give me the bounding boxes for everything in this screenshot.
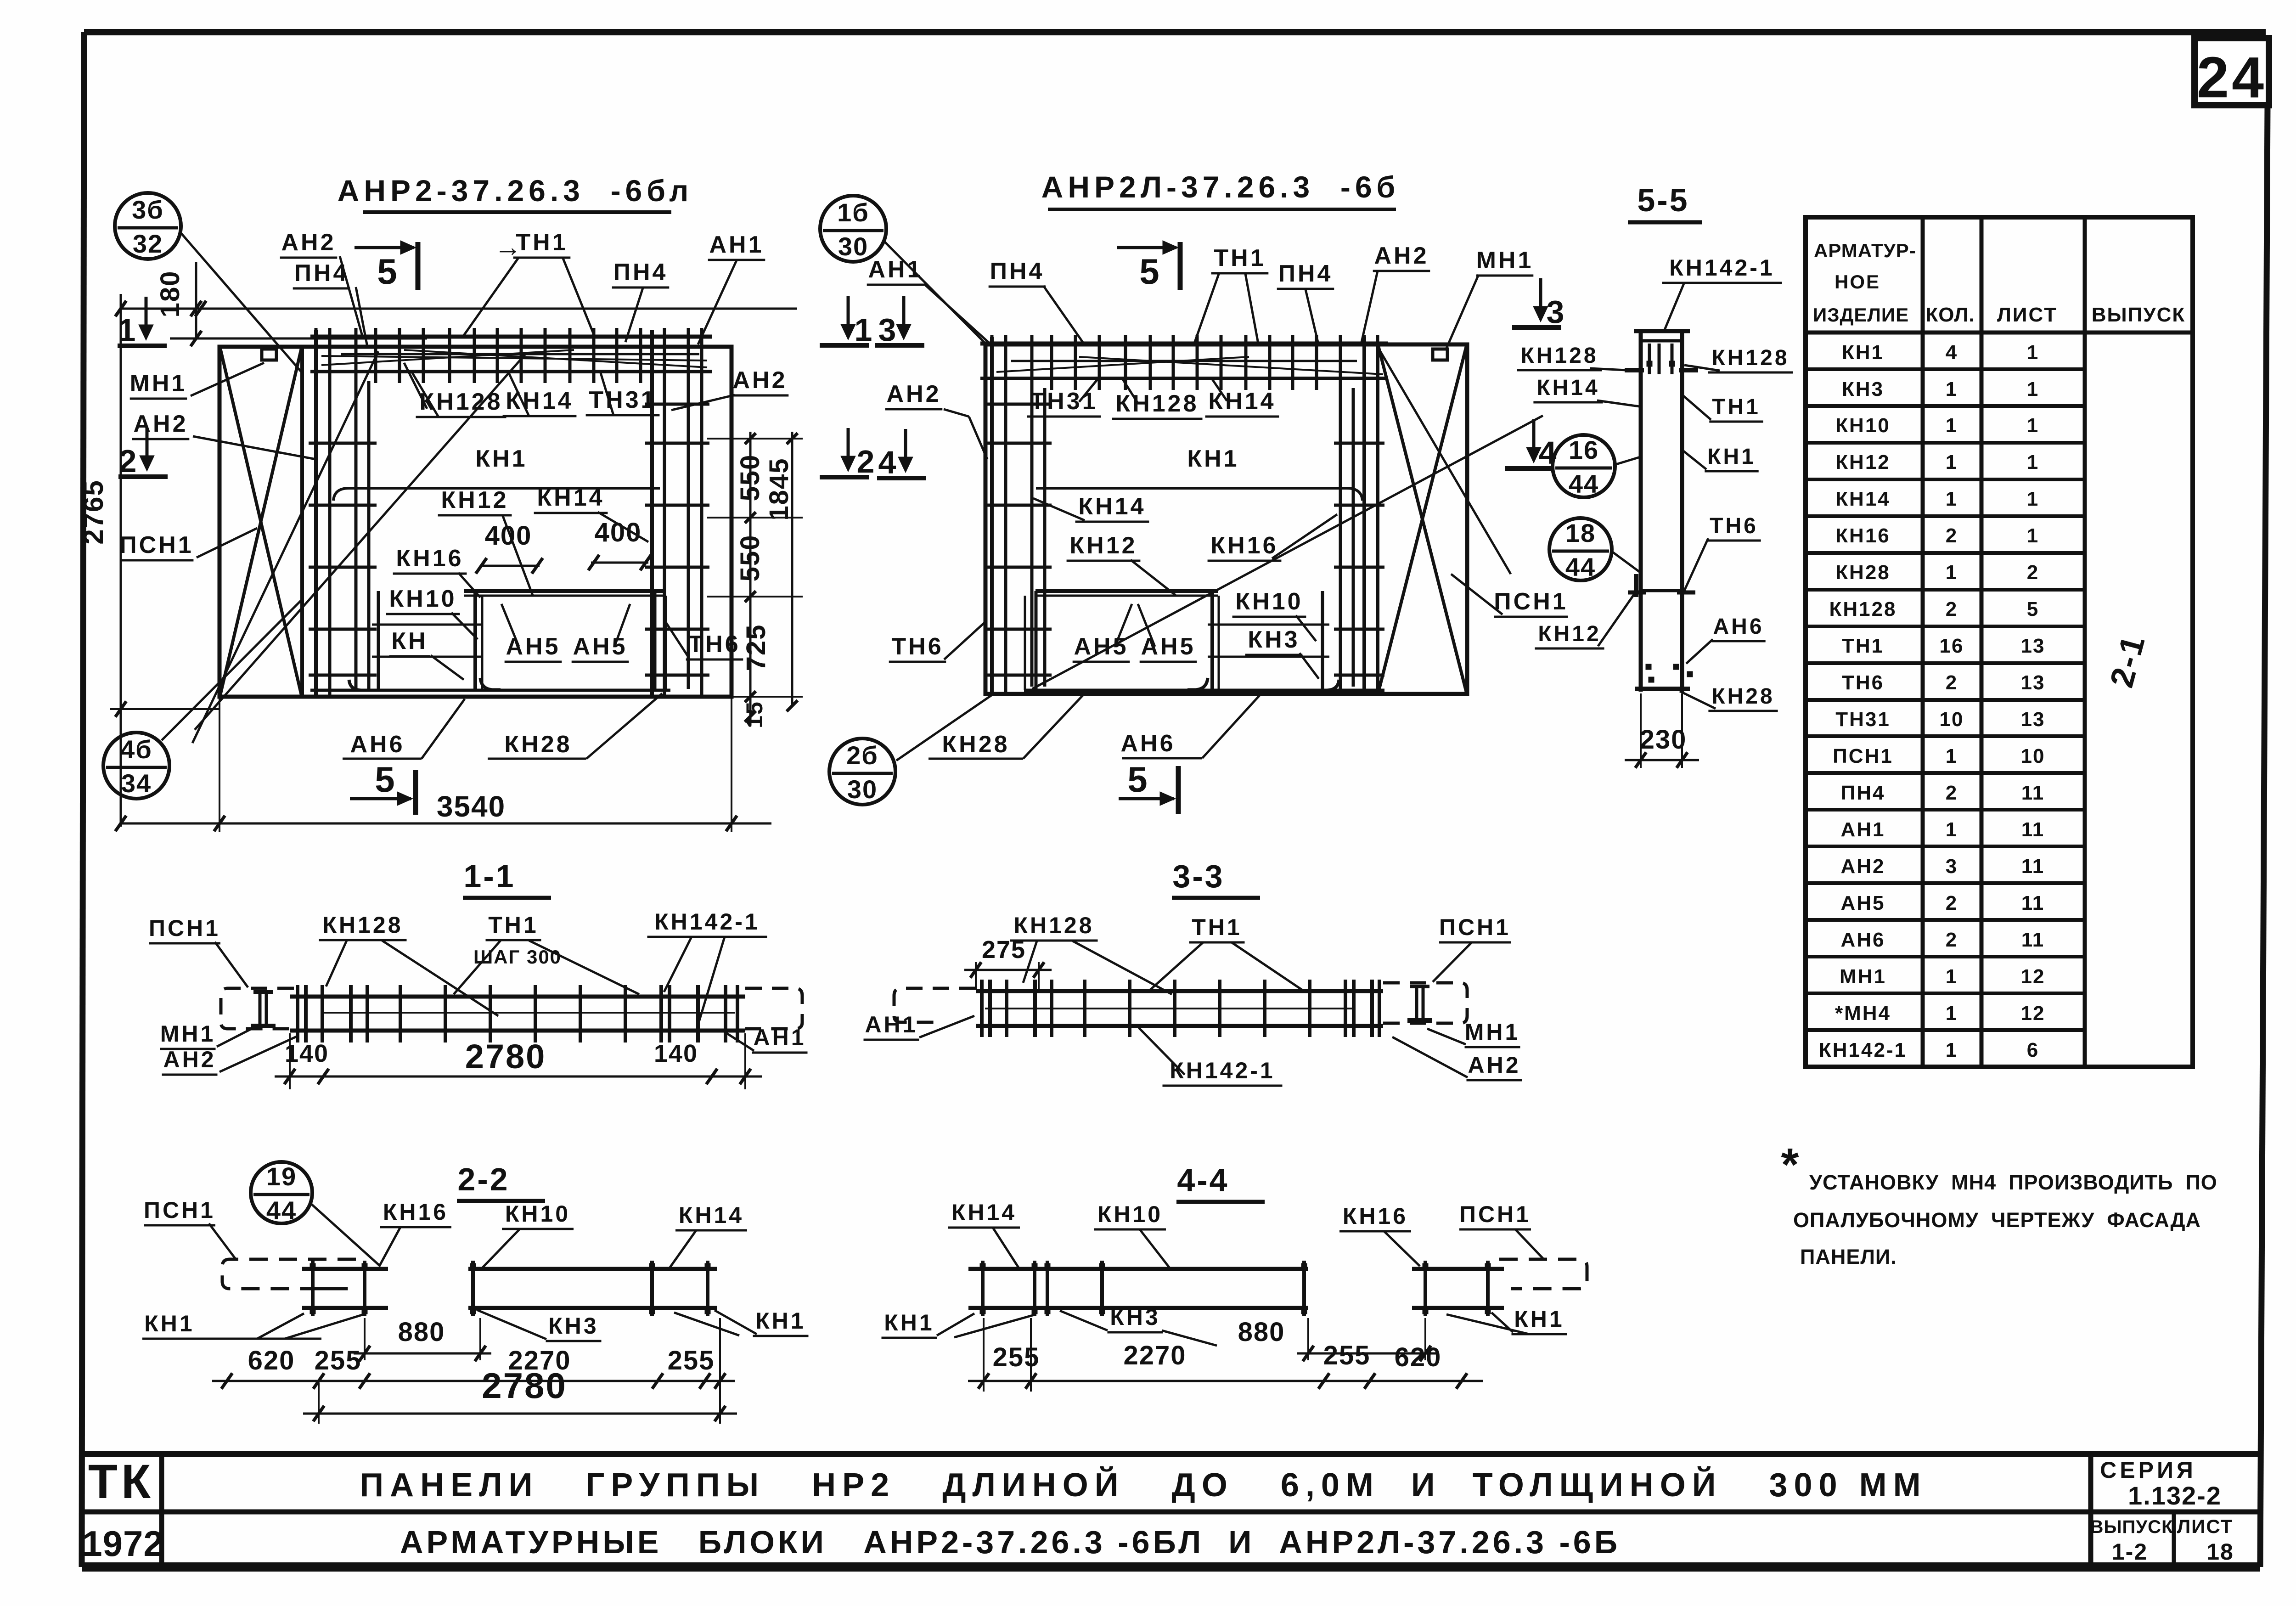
cut marker 1 (left): [145, 297, 148, 338]
right view window opening left edge: [1035, 591, 1038, 690]
svg-text:11: 11: [2021, 855, 2045, 878]
top datum dim line: [121, 308, 797, 310]
svg-text:1: 1: [1946, 488, 1958, 510]
svg-text:5: 5: [1127, 759, 1147, 800]
right ladder rungs: [645, 403, 709, 406]
detail circle 4б/34: [103, 733, 169, 799]
svg-text:1: 1: [1946, 1039, 1958, 1061]
4-4 beam: [1043, 1267, 1308, 1271]
svg-text:3б: 3б: [132, 195, 164, 224]
svg-text:ТК: ТК: [88, 1455, 154, 1509]
parts list table: АРМАТУРНОЕ ИЗДЕЛИЕ / КОЛ / ЛИСТ / ВЫПУСК: [1806, 217, 2193, 1067]
svg-text:НОЕ: НОЕ: [1835, 271, 1880, 293]
right view cage left ladder: [990, 337, 994, 694]
svg-text:КН14: КН14: [1835, 488, 1891, 510]
5-5 mid detail marks: [1641, 589, 1682, 592]
svg-text:620: 620: [248, 1346, 295, 1375]
svg-text:3-3: 3-3: [1172, 858, 1224, 894]
svg-text:АНР2Л-37.26.3 -6б: АНР2Л-37.26.3 -6б: [1041, 170, 1400, 204]
svg-text:ПСН1: ПСН1: [1459, 1201, 1531, 1227]
cut marker 3 (right of right view): [1539, 278, 1542, 319]
svg-text:ПАНЕЛИ ГРУППЫ НР2 ДЛИНОЙ: ПАНЕЛИ ГРУППЫ НР2 ДЛИНОЙ ДО 6,0М И ТОЛЩИ…: [360, 1466, 1927, 1504]
right view bottom cage chord double line: [1024, 689, 1384, 692]
svg-text:КН1: КН1: [755, 1308, 805, 1334]
svg-text:1: 1: [1946, 451, 1958, 473]
svg-text:2: 2: [119, 443, 137, 479]
left ladder rungs: [309, 442, 377, 445]
svg-text:ВЫПУСК: ВЫПУСК: [2090, 1517, 2173, 1537]
table row line: [1806, 661, 2085, 665]
svg-text:МН1: МН1: [1476, 247, 1534, 274]
svg-text:5: 5: [375, 759, 394, 800]
svg-text:КН3: КН3: [1842, 378, 1884, 400]
3-3 beam chords: [976, 989, 1383, 993]
section flag 5 (top of left view): [355, 246, 414, 249]
svg-text:КН16: КН16: [396, 545, 463, 572]
svg-text:ТН6: ТН6: [1710, 514, 1758, 538]
svg-text:13: 13: [2021, 708, 2045, 731]
left view X-braced end panel ПСН1: [300, 347, 304, 697]
svg-text:18: 18: [2206, 1539, 2234, 1565]
right side overall dim 1845: [791, 432, 793, 706]
svg-text:КН14: КН14: [1536, 376, 1599, 400]
svg-text:1: 1: [1946, 561, 1958, 584]
detail circle 16/44: [1553, 435, 1615, 497]
svg-text:ПН4: ПН4: [613, 259, 668, 286]
4-4 left cage: [968, 1267, 1056, 1271]
svg-text:АН2: АН2: [133, 411, 188, 437]
svg-text:30: 30: [847, 775, 878, 804]
4-4 hidden ПСН1 dashed: [1499, 1259, 1587, 1289]
svg-text:КН10: КН10: [1235, 588, 1303, 615]
cut marker 4 (right of right view): [1532, 419, 1536, 460]
3-3 right hidden piece dashed + МН1 anchor: [1383, 983, 1467, 1023]
svg-text:2765: 2765: [78, 479, 109, 544]
1-1 stirrup ticks: [296, 985, 299, 1042]
1-1 beam chords: [290, 995, 745, 999]
svg-text:ТН1: ТН1: [488, 912, 538, 938]
title block frame: [81, 1451, 2262, 1457]
svg-text:ТН31: ТН31: [589, 387, 656, 413]
right view window sill double line: [1035, 589, 1218, 593]
table row line: [1806, 918, 2085, 922]
svg-text:АРМАТУРНЫЕ БЛОКИ АНР2-37.2: АРМАТУРНЫЕ БЛОКИ АНР2-37.26.3 -6БЛ И АНР…: [400, 1524, 1621, 1560]
svg-text:АН1: АН1: [709, 231, 764, 258]
svg-text:ПСН1: ПСН1: [1439, 914, 1511, 940]
svg-text:КН1: КН1: [475, 445, 527, 472]
left view outer panel outline: [219, 347, 732, 697]
svg-text:11: 11: [2021, 818, 2045, 841]
svg-text:6: 6: [2027, 1039, 2039, 1061]
svg-text:АН6: АН6: [1713, 614, 1764, 639]
svg-text:550: 550: [735, 454, 765, 502]
left view cage left ladder verticals: [314, 330, 318, 697]
right side dim chain 550/550/725/15: [707, 438, 803, 440]
table row line: [1806, 734, 2085, 738]
svg-text:1: 1: [855, 312, 872, 348]
table row line: [1806, 404, 2085, 408]
svg-text:КОЛ.: КОЛ.: [1925, 304, 1975, 326]
svg-text:880: 880: [1238, 1317, 1285, 1347]
svg-text:КН16: КН16: [383, 1199, 448, 1225]
svg-text:1: 1: [2027, 378, 2039, 400]
svg-text:255: 255: [668, 1346, 715, 1375]
right mesh thin bent bars: [996, 357, 1249, 372]
detail circle 1б/30: [820, 196, 886, 262]
svg-text:1: 1: [2027, 488, 2039, 510]
svg-text:400: 400: [595, 518, 642, 547]
svg-text:КН16: КН16: [1343, 1203, 1408, 1229]
svg-text:230: 230: [1640, 725, 1687, 755]
svg-text:КН14: КН14: [537, 485, 604, 511]
svg-text:620: 620: [1395, 1342, 1442, 1372]
svg-text:ЛИСТ: ЛИСТ: [1997, 304, 2058, 326]
svg-text:44: 44: [1565, 552, 1596, 581]
2-2 left cage: [302, 1267, 388, 1271]
svg-text:2780: 2780: [482, 1365, 567, 1406]
svg-text:ТН1: ТН1: [1712, 395, 1761, 419]
svg-text:1: 1: [1946, 1002, 1958, 1025]
svg-text:КН1: КН1: [1514, 1306, 1564, 1332]
dim 180 vertical: [195, 262, 197, 338]
3-3 left hidden piece dashed: [894, 988, 976, 1022]
svg-text:19: 19: [266, 1162, 297, 1191]
left view long crossing leader lines: [195, 353, 526, 730]
svg-text:КН28: КН28: [942, 731, 1009, 758]
svg-text:АНР2-37.26.3 -6бл: АНР2-37.26.3 -6бл: [338, 174, 693, 208]
МН1 embed plate top-right: [1433, 349, 1447, 360]
right view X-braced end panel ПСН1: [1376, 344, 1379, 694]
svg-text:АН6: АН6: [350, 731, 405, 758]
svg-text:МН1: МН1: [1465, 1019, 1520, 1045]
svg-text:ПСН1: ПСН1: [119, 532, 193, 558]
svg-text:18: 18: [1565, 518, 1596, 547]
svg-text:5: 5: [1139, 251, 1159, 292]
left view window opening right edge: [653, 591, 657, 690]
3-3 stirrup ticks: [980, 980, 984, 1037]
svg-text:ТН6: ТН6: [891, 633, 943, 660]
svg-text:2-2: 2-2: [457, 1161, 509, 1197]
svg-text:11: 11: [2021, 782, 2045, 804]
left view bottom cage chord double line: [310, 689, 670, 692]
svg-text:КН128: КН128: [1829, 598, 1896, 620]
svg-text:15: 15: [742, 701, 767, 728]
right view outer panel outline: [985, 344, 1467, 694]
left view pier verticals: [377, 591, 380, 690]
svg-text:ПАНЕЛИ.: ПАНЕЛИ.: [1800, 1245, 1897, 1268]
svg-text:ТН31: ТН31: [1835, 708, 1891, 731]
svg-text:24: 24: [2197, 45, 2267, 110]
left overall dim 2765: [120, 294, 122, 827]
svg-text:АН1: АН1: [1840, 818, 1885, 841]
table row line: [1806, 588, 2085, 592]
svg-text:ПСН1: ПСН1: [1833, 745, 1893, 767]
svg-text:КН14: КН14: [1078, 493, 1146, 520]
svg-text:2: 2: [1946, 929, 1958, 951]
svg-text:АН5: АН5: [1840, 892, 1885, 914]
svg-text:1: 1: [1946, 378, 1958, 400]
svg-text:30: 30: [838, 232, 868, 261]
svg-text:4: 4: [878, 445, 896, 480]
svg-text:1: 1: [118, 312, 136, 348]
svg-text:ВЫПУСК: ВЫПУСК: [2092, 304, 2185, 326]
svg-text:2: 2: [1946, 892, 1958, 914]
detail circle 18/44: [1549, 518, 1612, 580]
svg-text:2270: 2270: [1123, 1341, 1186, 1370]
svg-text:КН1: КН1: [1842, 341, 1884, 364]
svg-text:МН1: МН1: [160, 1021, 216, 1047]
svg-text:КН128: КН128: [1013, 913, 1094, 938]
svg-text:КН10: КН10: [389, 586, 456, 612]
svg-text:1: 1: [1946, 818, 1958, 841]
svg-text:1: 1: [2027, 341, 2039, 364]
svg-text:АН1: АН1: [753, 1025, 806, 1050]
svg-text:ТН1: ТН1: [516, 229, 568, 256]
svg-text:КН142-1: КН142-1: [1819, 1039, 1907, 1061]
svg-text:АН5: АН5: [1074, 633, 1128, 660]
svg-text:1-2: 1-2: [2112, 1539, 2148, 1565]
svg-text:3: 3: [878, 312, 896, 348]
svg-text:КН128: КН128: [419, 389, 502, 415]
svg-text:АН2: АН2: [732, 367, 787, 394]
5-5 bottom detail marks: [1635, 687, 1690, 691]
svg-text:4: 4: [1946, 341, 1958, 364]
svg-text:11: 11: [2021, 929, 2045, 951]
svg-text:5: 5: [377, 251, 397, 292]
svg-text:11: 11: [2021, 892, 2045, 914]
svg-text:1: 1: [1946, 414, 1958, 437]
svg-text:12: 12: [2021, 965, 2045, 988]
svg-text:255: 255: [1323, 1341, 1371, 1370]
svg-text:2б: 2б: [846, 741, 878, 770]
table row line: [1806, 698, 2085, 702]
svg-text:ПСН1: ПСН1: [144, 1197, 215, 1223]
detail circle 2б/30: [829, 738, 895, 805]
svg-text:АН2: АН2: [281, 229, 336, 256]
svg-text:КН14: КН14: [951, 1200, 1017, 1225]
svg-text:АН2: АН2: [1374, 242, 1429, 269]
svg-text:МН1: МН1: [1840, 965, 1886, 988]
5-5 top detail marks: [1648, 344, 1651, 374]
left view bottom J-hook bars: [349, 680, 367, 690]
svg-text:КН10: КН10: [1097, 1201, 1163, 1227]
svg-text:КН1: КН1: [1187, 445, 1239, 472]
svg-text:1: 1: [1946, 745, 1958, 767]
svg-text:КН142-1: КН142-1: [1669, 255, 1775, 281]
svg-text:3540: 3540: [437, 790, 506, 823]
cut markers 1 and 3 (between views): [847, 296, 850, 337]
svg-text:1.132-2: 1.132-2: [2128, 1481, 2222, 1510]
svg-text:880: 880: [398, 1317, 445, 1347]
svg-text:ПСН1: ПСН1: [1494, 588, 1568, 615]
svg-text:140: 140: [285, 1040, 329, 1067]
svg-text:СЕРИЯ: СЕРИЯ: [2100, 1457, 2196, 1483]
svg-text:550: 550: [735, 535, 765, 582]
section flag 5 (bottom of left view): [413, 770, 418, 815]
svg-text:1845: 1845: [764, 457, 794, 520]
section 5-5 column outline: [1639, 331, 1643, 692]
svg-text:АН1: АН1: [865, 1012, 917, 1037]
table row line: [1806, 845, 2085, 848]
svg-text:КН10: КН10: [505, 1201, 570, 1227]
svg-text:АРМАТУР-: АРМАТУР-: [1814, 240, 1916, 261]
svg-text:32: 32: [133, 229, 163, 258]
svg-text:10: 10: [1940, 708, 1964, 731]
svg-text:АН5: АН5: [1141, 633, 1195, 660]
svg-text:5: 5: [2027, 598, 2039, 620]
svg-text:КН28: КН28: [1711, 684, 1774, 709]
svg-text:ПСН1: ПСН1: [149, 915, 220, 941]
svg-text:КН3: КН3: [1248, 626, 1300, 653]
table row line: [1806, 551, 2085, 555]
svg-text:*: *: [1781, 1139, 1799, 1190]
svg-text:ПН4: ПН4: [1278, 260, 1333, 287]
svg-text:КН12: КН12: [1835, 451, 1891, 473]
svg-text:140: 140: [654, 1040, 698, 1067]
left view mesh bent-bar thin lines: [321, 350, 574, 365]
svg-text:КН: КН: [391, 628, 428, 654]
svg-text:МН1: МН1: [130, 370, 187, 397]
svg-text:2780: 2780: [465, 1037, 546, 1076]
svg-text:5-5: 5-5: [1637, 182, 1689, 218]
right view pier verticals: [1210, 591, 1214, 690]
svg-text:КН12: КН12: [1069, 532, 1137, 559]
table row line: [1806, 955, 2085, 958]
svg-text:4б: 4б: [120, 735, 152, 764]
svg-text:2: 2: [1946, 671, 1958, 694]
svg-text:КН142-1: КН142-1: [654, 909, 760, 935]
svg-text:КН14: КН14: [506, 388, 573, 414]
svg-text:2: 2: [857, 444, 875, 479]
1-1 left hidden piece dashed + МН1 anchor: [221, 988, 294, 1029]
svg-text:12: 12: [2021, 1002, 2045, 1025]
svg-text:АН5: АН5: [573, 633, 627, 660]
svg-text:44: 44: [266, 1196, 297, 1225]
detail circle 3б/32: [115, 193, 181, 259]
svg-text:ТН1: ТН1: [1192, 914, 1242, 940]
svg-text:1-1: 1-1: [463, 858, 515, 894]
svg-text:УСТАНОВКУ МН4 ПРОИЗВОДИТЬ П: УСТАНОВКУ МН4 ПРОИЗВОДИТЬ ПО: [1809, 1171, 2217, 1194]
1-1 right hidden piece dashed: [745, 988, 802, 1029]
svg-text:АН1: АН1: [868, 256, 923, 283]
svg-text:КН12: КН12: [441, 487, 508, 513]
cut marker 2 (left): [146, 428, 149, 468]
svg-text:13: 13: [2021, 671, 2045, 694]
table row line: [1806, 771, 2085, 775]
svg-text:КН10: КН10: [1835, 414, 1891, 437]
svg-text:КН28: КН28: [1835, 561, 1891, 584]
left view window sill double line: [464, 589, 666, 593]
svg-text:АН2: АН2: [886, 381, 941, 407]
table row line: [1806, 367, 2085, 371]
svg-text:КН28: КН28: [504, 731, 572, 758]
svg-text:КН1: КН1: [884, 1310, 934, 1336]
left view cage right ladder verticals: [650, 330, 654, 697]
svg-text:ПН4: ПН4: [990, 258, 1045, 285]
right view bar КН1 long line: [1036, 488, 1362, 501]
svg-text:КН16: КН16: [1835, 524, 1891, 547]
svg-text:КН16: КН16: [1210, 532, 1278, 559]
svg-text:КН3: КН3: [1110, 1304, 1160, 1330]
4-4 right cage: [1412, 1267, 1504, 1271]
svg-text:АН2: АН2: [1840, 855, 1885, 878]
svg-text:АН6: АН6: [1840, 929, 1885, 951]
cut markers 2 and 4 (between views): [847, 428, 850, 469]
svg-text:ПН4: ПН4: [294, 260, 349, 287]
svg-text:255: 255: [993, 1342, 1040, 1372]
svg-text:КН1: КН1: [1707, 445, 1756, 469]
svg-text:1: 1: [2027, 524, 2039, 547]
svg-text:АН2: АН2: [163, 1047, 216, 1072]
svg-text:1: 1: [2027, 451, 2039, 473]
svg-text:13: 13: [2021, 635, 2045, 657]
left view bar КН1 long line: [333, 488, 660, 501]
svg-text:ТН6: ТН6: [1842, 671, 1884, 694]
svg-text:180: 180: [155, 270, 185, 318]
table row line: [1806, 625, 2085, 628]
right view cage right ladder: [1339, 337, 1342, 694]
МН1 embed plate top-left: [262, 349, 276, 360]
svg-text:2: 2: [1946, 598, 1958, 620]
svg-text:10: 10: [2021, 745, 2045, 767]
right view inner top edge: [1011, 360, 1357, 362]
svg-text:АН2: АН2: [1468, 1052, 1520, 1078]
svg-text:КН12: КН12: [1538, 622, 1601, 646]
svg-text:2: 2: [1946, 524, 1958, 547]
svg-text:АН6: АН6: [1120, 730, 1175, 757]
svg-text:КН1: КН1: [144, 1311, 194, 1336]
svg-text:ТН6: ТН6: [688, 631, 740, 658]
svg-text:1б: 1б: [837, 198, 869, 227]
right view long crossing leaders: [1032, 416, 1543, 689]
left view top mesh band ТН1: [310, 335, 712, 339]
svg-text:КН128: КН128: [1115, 390, 1199, 417]
svg-text:ПН4: ПН4: [1841, 782, 1885, 804]
svg-text:ИЗДЕЛИЕ: ИЗДЕЛИЕ: [1813, 304, 1909, 326]
svg-text:КН128: КН128: [1711, 346, 1789, 370]
table row line: [1806, 808, 2085, 811]
svg-text:КН128: КН128: [322, 912, 403, 938]
svg-text:255: 255: [315, 1346, 362, 1375]
svg-text:ТН1: ТН1: [1214, 245, 1266, 271]
svg-text:ЛИСТ: ЛИСТ: [2177, 1516, 2234, 1537]
svg-text:КН14: КН14: [1208, 388, 1276, 415]
2-2 hidden ПСН1 dashed: [222, 1259, 356, 1289]
2-2 beam: [468, 1267, 717, 1271]
svg-text:ТН1: ТН1: [1842, 635, 1884, 657]
section flag 5 (top of right view): [1117, 246, 1176, 249]
table row line: [1806, 881, 2085, 885]
svg-text:2: 2: [2027, 561, 2039, 584]
svg-text:400: 400: [485, 521, 532, 551]
svg-text:44: 44: [1569, 469, 1599, 498]
right view bottom J-hook bars: [1187, 678, 1208, 690]
pier rungs: [372, 624, 482, 626]
table row line: [1806, 478, 2085, 481]
svg-text:16: 16: [1940, 635, 1964, 657]
svg-text:3: 3: [1547, 294, 1564, 330]
svg-text:КН3: КН3: [548, 1313, 598, 1339]
svg-text:КН128: КН128: [1520, 344, 1598, 368]
table row line: [1806, 992, 2085, 995]
svg-text:1: 1: [2027, 414, 2039, 437]
svg-text:16: 16: [1569, 435, 1599, 464]
svg-text:2: 2: [1946, 782, 1958, 804]
table row line: [1806, 1028, 2085, 1032]
svg-text:4-4: 4-4: [1177, 1162, 1229, 1198]
svg-text:*МН4: *МН4: [1835, 1002, 1891, 1025]
svg-text:725: 725: [741, 624, 771, 671]
